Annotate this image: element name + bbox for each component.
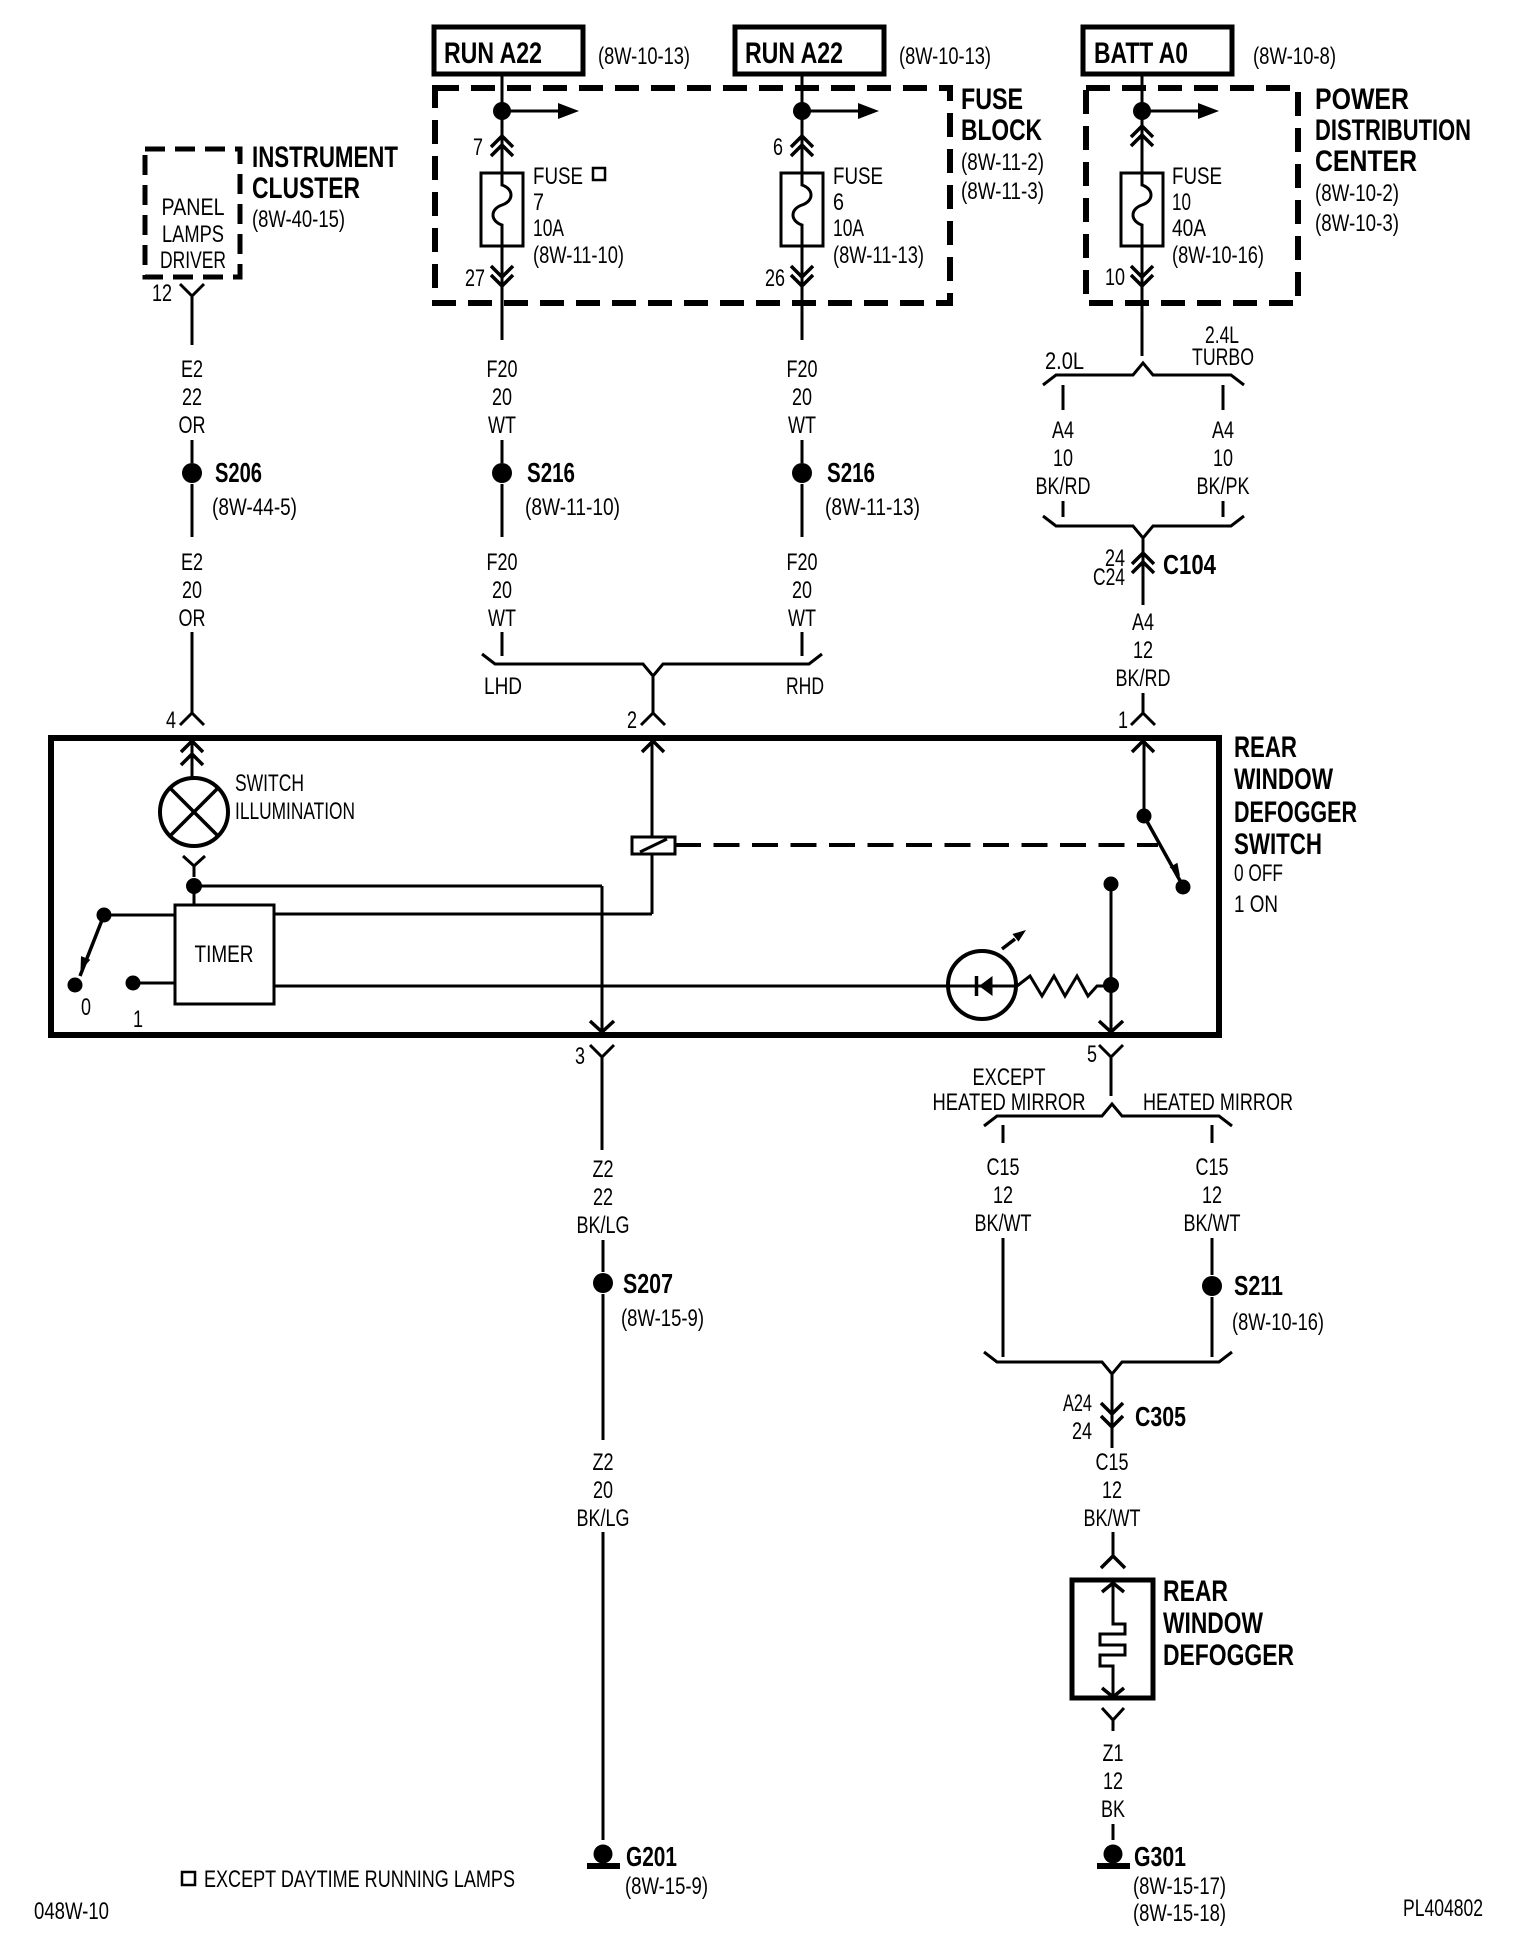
svg-text:E2: E2 bbox=[181, 356, 203, 383]
svg-text:(8W-10-2): (8W-10-2) bbox=[1315, 180, 1399, 207]
wire S216 left down bbox=[501, 484, 504, 537]
svg-text:(8W-11-13): (8W-11-13) bbox=[833, 242, 924, 269]
svg-text:TIMER: TIMER bbox=[195, 941, 254, 968]
wire to switch pin 1 bbox=[1142, 693, 1145, 713]
svg-text:7: 7 bbox=[533, 189, 544, 216]
svg-text:A4: A4 bbox=[1212, 417, 1234, 444]
contact 0 dot bbox=[68, 978, 83, 993]
junction dot resistor to output bbox=[1103, 977, 1119, 993]
svg-text:C24: C24 bbox=[1093, 564, 1125, 591]
svg-text:BK/WT: BK/WT bbox=[1184, 1210, 1241, 1237]
svg-text:Z1: Z1 bbox=[1103, 1740, 1124, 1767]
svg-text:4: 4 bbox=[166, 707, 176, 734]
svg-text:BK/PK: BK/PK bbox=[1197, 473, 1250, 500]
svg-text:PANEL: PANEL bbox=[162, 194, 225, 221]
splice S206 (8W-44-5) bbox=[182, 463, 202, 483]
pin 3 internal chevron bbox=[590, 1021, 614, 1032]
wire to ground G201 bbox=[602, 1532, 605, 1840]
pin 5 internal chevron bbox=[1099, 1021, 1123, 1032]
branch wire except heated mirror bbox=[1002, 1125, 1005, 1143]
wire lamp junction to timer bbox=[193, 886, 196, 905]
svg-text:FUSE: FUSE bbox=[1172, 163, 1222, 190]
svg-text:INSTRUMENT: INSTRUMENT bbox=[252, 141, 398, 174]
svg-text:S207: S207 bbox=[623, 1268, 673, 1299]
svg-text:(8W-10-8): (8W-10-8) bbox=[1253, 43, 1336, 70]
svg-text:BK/RD: BK/RD bbox=[1036, 473, 1091, 500]
connector box BATT A0 bbox=[1083, 27, 1232, 74]
svg-text:20: 20 bbox=[182, 577, 202, 604]
svg-text:Z2: Z2 bbox=[593, 1449, 614, 1476]
wire fuse 7 out bbox=[501, 246, 504, 340]
svg-text:REAR: REAR bbox=[1163, 1575, 1228, 1608]
lamp lower fork bbox=[183, 856, 205, 877]
defogger grid element bbox=[1102, 1583, 1124, 1592]
svg-text:(8W-11-2): (8W-11-2) bbox=[961, 149, 1044, 176]
svg-text:CENTER: CENTER bbox=[1315, 145, 1417, 178]
arrow feed continues right bbox=[502, 110, 558, 113]
switch output contact dot bbox=[1104, 877, 1119, 892]
wire timer to LED bbox=[274, 985, 1017, 988]
wire contact 1 to timer bbox=[140, 982, 175, 985]
svg-text:1: 1 bbox=[133, 1006, 143, 1033]
blade end dot bbox=[1176, 880, 1191, 895]
svg-text:WINDOW: WINDOW bbox=[1163, 1607, 1264, 1640]
svg-text:20: 20 bbox=[593, 1477, 613, 1504]
svg-text:EXCEPT DAYTIME RUNNING LAMPS: EXCEPT DAYTIME RUNNING LAMPS bbox=[204, 1866, 515, 1893]
svg-text:BK/RD: BK/RD bbox=[1116, 665, 1171, 692]
svg-text:RHD: RHD bbox=[786, 673, 824, 700]
svg-text:WINDOW: WINDOW bbox=[1234, 763, 1334, 796]
svg-text:DEFOGGER: DEFOGGER bbox=[1234, 796, 1357, 829]
wire S216 right down bbox=[801, 484, 804, 537]
svg-text:A4: A4 bbox=[1132, 609, 1154, 636]
junction dot batt feed bbox=[1133, 102, 1151, 120]
wire fuse 10 out bbox=[1141, 246, 1144, 356]
wire merge to C104 bbox=[1142, 539, 1145, 605]
svg-text:Z2: Z2 bbox=[593, 1156, 614, 1183]
svg-text:(8W-10-13): (8W-10-13) bbox=[899, 43, 991, 70]
pin 1 internal chevron bbox=[1132, 741, 1154, 752]
footnote except daytime running lamps bbox=[182, 1872, 195, 1885]
svg-text:RUN A22: RUN A22 bbox=[745, 37, 843, 70]
svg-text:G201: G201 bbox=[626, 1841, 677, 1872]
defogger entry chevron bbox=[1101, 1556, 1125, 1568]
svg-text:OR: OR bbox=[179, 412, 206, 439]
svg-text:(8W-11-10): (8W-11-10) bbox=[525, 494, 620, 521]
relay actuation dashed link bbox=[675, 843, 1158, 847]
svg-text:S211: S211 bbox=[1234, 1270, 1283, 1301]
timer switch blade with arrow bbox=[80, 915, 104, 976]
wire into LHD merge bbox=[501, 632, 504, 656]
wire merge to C305 bbox=[1111, 1375, 1114, 1448]
svg-text:POWER: POWER bbox=[1315, 83, 1409, 116]
svg-text:(8W-44-5): (8W-44-5) bbox=[212, 494, 297, 521]
wire into switch pin 4 bbox=[191, 632, 194, 703]
svg-text:BK/LG: BK/LG bbox=[577, 1212, 630, 1239]
svg-text:0: 0 bbox=[81, 994, 91, 1021]
splice S211 (8W-10-16) bbox=[1202, 1276, 1222, 1296]
fuse F7 10A bbox=[481, 173, 523, 246]
LHD RHD merge brace bbox=[482, 654, 822, 676]
ground G301 bbox=[1104, 1845, 1123, 1864]
wire pin 1 to switch pivot bbox=[1143, 741, 1146, 816]
svg-text:TURBO: TURBO bbox=[1192, 344, 1254, 371]
wire relay to timer bbox=[651, 854, 654, 914]
branch wire left long bbox=[1002, 1238, 1005, 1357]
fuse F10 40A bbox=[1121, 173, 1163, 246]
switch illumination lamp bbox=[160, 778, 228, 846]
svg-text:SWITCH: SWITCH bbox=[1234, 828, 1322, 861]
wire to defogger bbox=[1112, 1532, 1115, 1556]
defogger switch pivot dot bbox=[1137, 809, 1152, 824]
svg-text:10A: 10A bbox=[533, 215, 564, 242]
connector box RUN A22 (right) bbox=[735, 27, 884, 74]
junction dot fuse 7 feed bbox=[493, 102, 511, 120]
wire to ground G301 bbox=[1112, 1824, 1115, 1840]
power distribution center dashed enclosure bbox=[1086, 88, 1298, 303]
svg-text:C15: C15 bbox=[1196, 1154, 1229, 1181]
splice S216 (8W-11-10) bbox=[492, 463, 512, 483]
svg-text:LHD: LHD bbox=[484, 673, 522, 700]
svg-text:DISTRIBUTION: DISTRIBUTION bbox=[1315, 114, 1471, 147]
svg-text:LAMPS: LAMPS bbox=[162, 221, 224, 248]
wire cluster down bbox=[191, 303, 194, 345]
wire drop to pin 3 bbox=[601, 886, 604, 1032]
svg-text:40A: 40A bbox=[1172, 215, 1206, 242]
branch wire heated mirror bbox=[1211, 1125, 1214, 1143]
svg-text:WT: WT bbox=[488, 412, 516, 439]
svg-text:WT: WT bbox=[788, 605, 816, 632]
svg-text:F20: F20 bbox=[487, 356, 518, 383]
timer box bbox=[175, 905, 274, 1004]
svg-text:ILLUMINATION: ILLUMINATION bbox=[235, 798, 355, 825]
pin 2 internal chevron bbox=[642, 741, 664, 752]
svg-text:(8W-10-3): (8W-10-3) bbox=[1315, 210, 1399, 237]
connector C305 bbox=[1101, 1403, 1123, 1414]
branch wire 2.4L lower bbox=[1222, 501, 1225, 517]
svg-text:FUSE: FUSE bbox=[533, 163, 583, 190]
wire to splice S211 bbox=[1211, 1238, 1214, 1275]
svg-text:S216: S216 bbox=[527, 457, 575, 488]
svg-text:WT: WT bbox=[488, 605, 516, 632]
svg-text:A4: A4 bbox=[1052, 417, 1074, 444]
wire RUN A22 left to fuse 7 bbox=[501, 74, 504, 173]
svg-text:7: 7 bbox=[473, 134, 483, 161]
indicator LED circle bbox=[948, 951, 1016, 1019]
svg-text:(8W-10-16): (8W-10-16) bbox=[1172, 242, 1264, 269]
svg-text:0 OFF: 0 OFF bbox=[1234, 860, 1283, 887]
heated mirror merge brace bbox=[984, 1352, 1232, 1374]
svg-text:10: 10 bbox=[1213, 445, 1233, 472]
wire to splice S207 bbox=[602, 1240, 605, 1272]
svg-text:F20: F20 bbox=[787, 549, 818, 576]
svg-text:20: 20 bbox=[492, 577, 512, 604]
svg-text:PL404802: PL404802 bbox=[1403, 1895, 1483, 1922]
svg-text:DRIVER: DRIVER bbox=[160, 247, 226, 274]
svg-text:EXCEPT: EXCEPT bbox=[973, 1064, 1046, 1091]
engine option split brace bbox=[1043, 363, 1244, 385]
connector chevrons batt bbox=[1131, 126, 1153, 137]
svg-text:(8W-40-15): (8W-40-15) bbox=[252, 206, 345, 233]
rear window defogger switch enclosure bbox=[51, 738, 1219, 1035]
svg-text:10A: 10A bbox=[833, 215, 864, 242]
svg-text:22: 22 bbox=[593, 1184, 613, 1211]
svg-text:F20: F20 bbox=[787, 356, 818, 383]
connector chevrons pin 26 bbox=[791, 266, 813, 277]
wire S206 down bbox=[191, 484, 194, 537]
fuse F6 10A bbox=[781, 173, 823, 246]
svg-text:5: 5 bbox=[1087, 1041, 1097, 1068]
engine option merge brace bbox=[1043, 516, 1244, 538]
pin 4 internal chevrons bbox=[181, 741, 203, 752]
svg-text:(8W-15-9): (8W-15-9) bbox=[625, 1873, 708, 1900]
fuse block dashed enclosure bbox=[435, 88, 950, 303]
wire pin 5 down bbox=[1110, 1062, 1113, 1096]
svg-text:(8W-15-18): (8W-15-18) bbox=[1133, 1900, 1226, 1927]
svg-text:10: 10 bbox=[1053, 445, 1073, 472]
wire pin 2 to relay coil bbox=[651, 741, 654, 837]
svg-text:10: 10 bbox=[1105, 264, 1125, 291]
wire into RHD merge bbox=[801, 632, 804, 656]
svg-text:A24: A24 bbox=[1063, 1390, 1092, 1417]
connector chevrons pin 10 bbox=[1131, 266, 1153, 277]
svg-text:HEATED MIRROR: HEATED MIRROR bbox=[933, 1089, 1086, 1116]
svg-text:12: 12 bbox=[152, 280, 172, 307]
svg-text:12: 12 bbox=[1103, 1768, 1123, 1795]
contact 1 dot bbox=[126, 976, 141, 991]
svg-text:20: 20 bbox=[492, 384, 512, 411]
svg-text:20: 20 bbox=[792, 577, 812, 604]
wire lamp junction to pin 3 drop bbox=[194, 885, 602, 888]
wire S207 down bbox=[602, 1294, 605, 1440]
arrow feed continues right fuse 6 bbox=[802, 110, 858, 113]
svg-text:CLUSTER: CLUSTER bbox=[252, 172, 360, 205]
svg-text:6: 6 bbox=[833, 189, 844, 216]
relay coil bbox=[632, 837, 675, 854]
svg-text:26: 26 bbox=[765, 265, 785, 292]
svg-text:1 ON: 1 ON bbox=[1234, 891, 1278, 918]
svg-text:(8W-10-13): (8W-10-13) bbox=[598, 43, 690, 70]
svg-text:(8W-11-10): (8W-11-10) bbox=[533, 242, 624, 269]
heated mirror split brace bbox=[984, 1104, 1232, 1126]
rear window defogger box bbox=[1072, 1580, 1153, 1698]
junction dot fuse 6 feed bbox=[793, 102, 811, 120]
branch wire 2.0L lower bbox=[1062, 501, 1065, 517]
svg-text:27: 27 bbox=[465, 265, 485, 292]
svg-text:(8W-15-9): (8W-15-9) bbox=[621, 1305, 704, 1332]
connector chevrons pin 27 bbox=[491, 266, 513, 277]
connector C104 bbox=[1132, 553, 1154, 564]
svg-text:6: 6 bbox=[773, 134, 783, 161]
wire RUN A22 right to fuse 6 bbox=[801, 74, 804, 173]
svg-text:WT: WT bbox=[788, 412, 816, 439]
wire pivot to timer bbox=[111, 914, 175, 917]
svg-text:22: 22 bbox=[182, 384, 202, 411]
svg-text:F20: F20 bbox=[487, 549, 518, 576]
svg-text:10: 10 bbox=[1172, 189, 1191, 216]
svg-text:BLOCK: BLOCK bbox=[961, 114, 1042, 147]
svg-text:S216: S216 bbox=[827, 457, 875, 488]
svg-text:BATT A0: BATT A0 bbox=[1094, 37, 1188, 70]
LED diode symbol bbox=[975, 976, 979, 996]
arrow batt feed continues right bbox=[1142, 110, 1198, 113]
svg-text:BK/LG: BK/LG bbox=[577, 1505, 630, 1532]
svg-text:HEATED MIRROR: HEATED MIRROR bbox=[1143, 1089, 1293, 1116]
svg-text:3: 3 bbox=[575, 1043, 585, 1070]
svg-text:BK/WT: BK/WT bbox=[975, 1210, 1032, 1237]
wire to splice S216 left bbox=[501, 440, 504, 463]
wire to splice S216 right bbox=[801, 440, 804, 463]
svg-text:S206: S206 bbox=[215, 457, 262, 488]
svg-text:12: 12 bbox=[1202, 1182, 1222, 1209]
connector box RUN A22 (left) bbox=[434, 27, 583, 74]
wire fuse 6 out bbox=[801, 246, 804, 340]
instrument cluster dashed box bbox=[145, 149, 240, 277]
svg-text:12: 12 bbox=[1133, 637, 1153, 664]
branch wire 2.4L bbox=[1222, 385, 1225, 410]
defogger switch blade bbox=[1144, 816, 1183, 886]
svg-text:RUN A22: RUN A22 bbox=[444, 37, 542, 70]
wire output to pin 5 bbox=[1110, 884, 1113, 1032]
splice S207 (8W-15-9) bbox=[593, 1273, 613, 1293]
svg-text:C305: C305 bbox=[1135, 1401, 1186, 1432]
svg-text:DEFOGGER: DEFOGGER bbox=[1163, 1639, 1294, 1672]
branch wire 2.0L bbox=[1062, 385, 1065, 410]
wire merge to switch pin 2 bbox=[652, 686, 655, 713]
LED indicator arrow bbox=[1002, 939, 1015, 949]
svg-text:C15: C15 bbox=[987, 1154, 1020, 1181]
svg-text:24: 24 bbox=[1072, 1418, 1092, 1445]
connector chevrons pin 7 bbox=[491, 136, 513, 147]
indicator resistor bbox=[1017, 976, 1111, 996]
wire to splice S206 bbox=[191, 440, 194, 463]
timer switch pivot dot bbox=[97, 908, 112, 923]
svg-text:(8W-11-13): (8W-11-13) bbox=[825, 494, 920, 521]
svg-text:12: 12 bbox=[993, 1182, 1013, 1209]
svg-text:(8W-10-16): (8W-10-16) bbox=[1232, 1309, 1324, 1336]
connector chevrons pin 6 bbox=[791, 136, 813, 147]
svg-text:BK: BK bbox=[1101, 1796, 1125, 1823]
wire S211 down bbox=[1211, 1297, 1214, 1357]
svg-text:SWITCH: SWITCH bbox=[235, 770, 304, 797]
wire pin 3 down bbox=[601, 1065, 604, 1150]
svg-text:E2: E2 bbox=[181, 549, 203, 576]
svg-text:BK/WT: BK/WT bbox=[1084, 1505, 1141, 1532]
svg-text:(8W-15-17): (8W-15-17) bbox=[1133, 1873, 1226, 1900]
junction dot lamp to timer bbox=[186, 878, 202, 894]
svg-text:2: 2 bbox=[627, 707, 637, 734]
svg-text:G301: G301 bbox=[1134, 1841, 1186, 1872]
svg-text:C15: C15 bbox=[1096, 1449, 1129, 1476]
svg-text:1: 1 bbox=[1118, 707, 1128, 734]
fork below instrument cluster bbox=[180, 284, 204, 303]
wire BATT A0 to fuse 10 bbox=[1141, 74, 1144, 173]
svg-text:12: 12 bbox=[1102, 1477, 1122, 1504]
svg-text:FUSE: FUSE bbox=[833, 163, 883, 190]
svg-text:REAR: REAR bbox=[1234, 731, 1297, 764]
svg-text:C104: C104 bbox=[1163, 549, 1216, 580]
svg-text:2.0L: 2.0L bbox=[1045, 348, 1084, 375]
svg-text:20: 20 bbox=[792, 384, 812, 411]
svg-text:FUSE: FUSE bbox=[961, 83, 1023, 116]
ground G201 bbox=[594, 1845, 613, 1864]
svg-text:OR: OR bbox=[179, 605, 206, 632]
svg-text:048W-10: 048W-10 bbox=[34, 1898, 109, 1925]
defogger exit fork bbox=[1102, 1708, 1124, 1731]
splice S216 (8W-11-13) bbox=[792, 463, 812, 483]
svg-text:(8W-11-3): (8W-11-3) bbox=[961, 178, 1044, 205]
